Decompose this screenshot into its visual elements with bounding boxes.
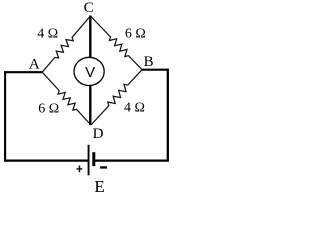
wire: right horizontal from node B to right edge	[142, 69, 169, 71]
wire: right vertical edge	[167, 69, 169, 162]
wire: left horizontal from node A to left edge	[4, 71, 42, 73]
resistor 4Ω between B and D	[91, 70, 142, 125]
battery E: long positive plate	[88, 145, 90, 176]
svg-text:V: V	[85, 64, 95, 81]
wire: bottom left segment to battery positive	[4, 160, 88, 162]
label + (battery positive)	[77, 166, 83, 173]
resistor 6Ω between C and B	[90, 16, 142, 70]
svg-text:E: E	[94, 177, 104, 195]
svg-text:4 Ω: 4 Ω	[124, 101, 145, 116]
wire: vertical from node C to voltmeter top	[89, 16, 91, 58]
label - (battery negative)	[100, 166, 107, 168]
wire: vertical from voltmeter bottom to node D	[89, 85, 91, 125]
svg-text:A: A	[29, 57, 40, 73]
resistor 4Ω between A and C	[42, 16, 90, 72]
voltmeter V (circle)	[74, 57, 104, 85]
resistor 6Ω between A and D	[42, 72, 91, 125]
battery E: short negative plate	[92, 152, 95, 166]
wire: left vertical edge	[4, 71, 6, 161]
svg-text:6 Ω: 6 Ω	[125, 27, 146, 42]
wire: bottom right segment from battery negative	[94, 160, 169, 162]
svg-text:C: C	[84, 0, 94, 16]
svg-text:4 Ω: 4 Ω	[37, 27, 58, 42]
svg-text:6 Ω: 6 Ω	[38, 101, 59, 116]
svg-text:D: D	[93, 126, 104, 142]
svg-text:B: B	[144, 54, 154, 70]
